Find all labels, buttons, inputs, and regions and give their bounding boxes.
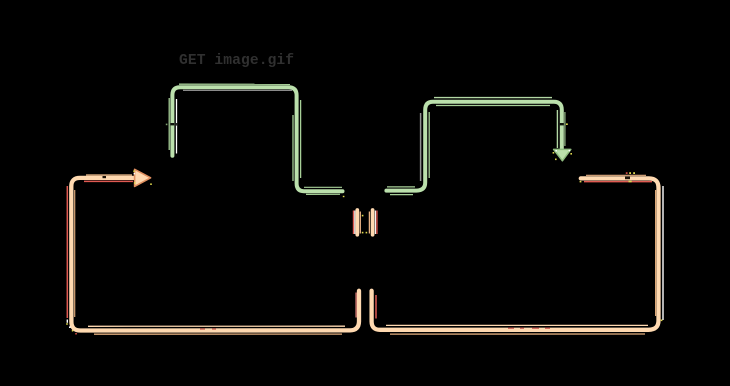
specks at left box bottom-left corner <box>66 323 73 331</box>
wire peach offset below right box bottom edge <box>390 333 645 335</box>
wire green thin offset above path1 top edge <box>179 83 290 85</box>
speck yellow next to path2 right vertical crossing <box>566 123 568 125</box>
wire red offset left of left box left edge <box>66 186 68 318</box>
speck dark crossing on arrow shaft <box>103 176 107 178</box>
arrowhead of orange request arrow <box>135 169 151 186</box>
specks near right box top edge <box>626 172 628 174</box>
wire white offset right of right box right edge <box>662 186 664 320</box>
wire green thin offset below path2 top edge <box>436 105 550 107</box>
speck green dot left of path1 vertical <box>166 124 168 126</box>
speck dark crossing on path2 right vertical <box>560 123 564 125</box>
specks yellow near middle segments <box>362 215 367 234</box>
wire peach thin offset above arrow shaft <box>86 174 132 176</box>
wire peach thin offset left of right box upper-left segment <box>368 212 370 234</box>
wire red offset of left box lower-right segment <box>355 293 357 318</box>
wire green thin offset left of path1 second vertical <box>292 115 294 181</box>
speck dark crossing on path1 first vertical <box>171 123 175 125</box>
speck yellow at right box cap <box>580 181 582 183</box>
wire red offset left of upper-right segment <box>353 211 355 235</box>
wire white tail below red offset at bottom-left corner <box>66 320 68 323</box>
wire green thin offset right of path2 right vertical <box>564 112 566 146</box>
wire green thin offset below path2 start horizontal <box>390 194 413 196</box>
wire peach offset below left box bottom edge <box>94 333 342 335</box>
specks white and yellow on green arrowhead <box>555 150 570 152</box>
wire red offset under right box top edge <box>584 181 652 183</box>
wire peach thin offset right of upper-right segment <box>359 212 361 234</box>
wire green thin offset left of path2 right vertical <box>556 110 558 148</box>
wire green thin offset left of path1 first vertical <box>168 98 170 150</box>
speck red dashes on right box bottom edge <box>508 328 550 329</box>
wire peach offset above right box bottom edge <box>386 324 648 326</box>
wire red offset of right box lower-left segment <box>375 295 377 319</box>
wire white offset right of path1 first vertical <box>176 99 178 154</box>
wire green thin offset right of path2 vertical <box>428 112 430 178</box>
wire green thin offset above path2 top edge <box>434 97 552 99</box>
wire red offset right of right box upper-left segment <box>376 211 378 235</box>
speck yellow near orange arrowhead top <box>133 170 152 185</box>
svg-text:GET image.gif: GET image.gif <box>179 53 294 69</box>
wire peach thin offset left of right box right edge <box>655 190 657 316</box>
wire peach thin offset above right box top edge <box>586 174 646 176</box>
left box (browser) upper-right edge segment <box>355 210 359 235</box>
speck yellow at right box bottom corner <box>661 320 663 322</box>
wire red offset under arrow shaft <box>84 180 133 182</box>
wire green thin offset above path1 tail <box>304 186 342 188</box>
speck yellow near path1 tail end <box>343 196 345 197</box>
label GET image.gif <box>179 53 294 69</box>
wire peach thin offset right of left box left edge <box>74 190 76 317</box>
left box (browser) main outline with arrow shaft <box>71 178 359 331</box>
right box (server) upper-left edge segment <box>371 210 375 235</box>
wire green thin offset right of path1 second vertical <box>300 100 302 178</box>
wire white offset left of upper-right segment <box>354 211 356 235</box>
arrowhead of green arrow into server <box>554 149 571 160</box>
speck white near orange arrowhead <box>134 173 136 175</box>
speck dark crossing on right box top edge <box>625 177 630 180</box>
wire gray offset below path1 top edge <box>183 89 292 91</box>
wire green thin offset above path2 start horizontal <box>387 186 415 188</box>
wire peach offset above left box bottom edge <box>88 325 345 327</box>
wire green thin offset below path1 tail <box>306 193 340 195</box>
green request path 2 into server <box>386 102 561 191</box>
speck red dashes on left box bottom edge <box>200 328 216 329</box>
right box (server) main outline <box>372 178 659 329</box>
wire white offset right of right box upper-left segment <box>374 211 376 235</box>
wire gray offset left of path2 vertical <box>420 113 422 181</box>
green request path 1 from browser <box>172 87 342 191</box>
